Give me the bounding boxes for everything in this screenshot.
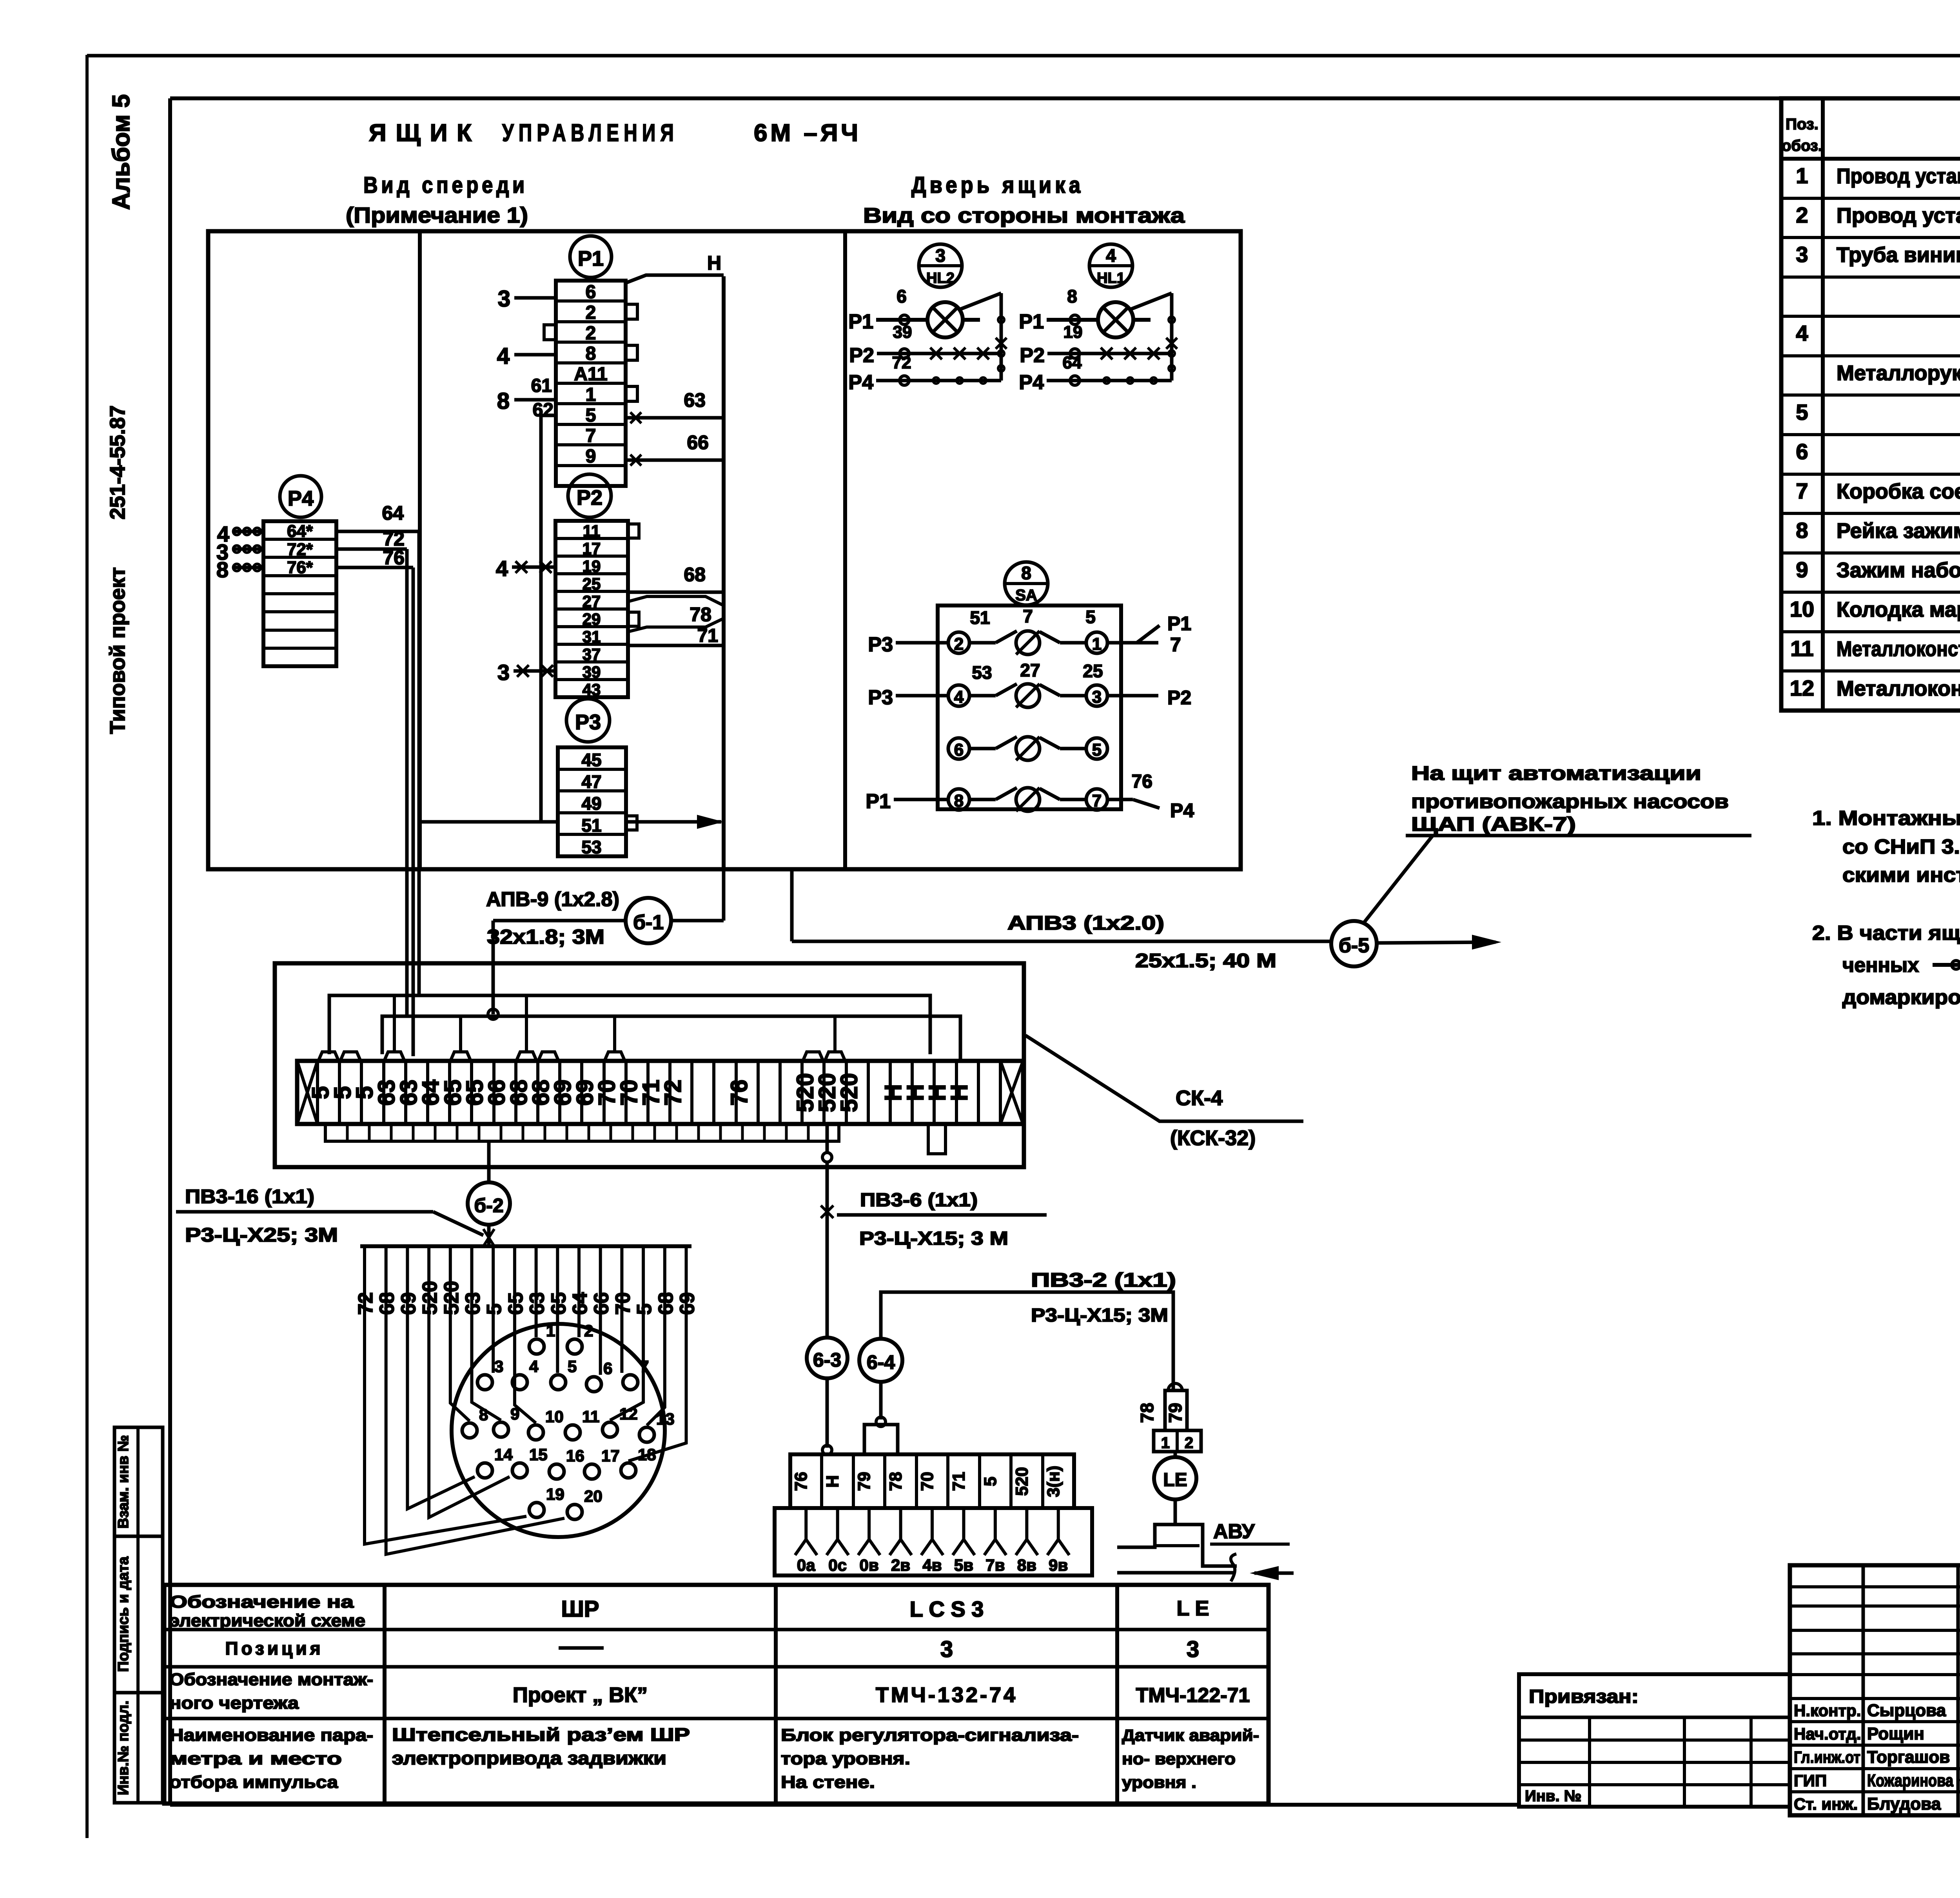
svg-text:43: 43 [583, 680, 601, 699]
svg-text:Поз.: Поз. [1786, 116, 1818, 133]
svg-text:12: 12 [1790, 676, 1814, 700]
svg-text:Альбом 5: Альбом 5 [108, 94, 135, 210]
svg-text:Р4: Р4 [848, 371, 873, 394]
svg-text:68: 68 [684, 564, 706, 586]
sensor LE circle [1154, 1457, 1196, 1499]
SA right wire row1 to Р1 and 7 [1107, 641, 1158, 645]
svg-text:78: 78 [1137, 1403, 1157, 1423]
strip top caps [318, 1052, 339, 1061]
svg-text:Позиция: Позиция [225, 1638, 323, 1659]
LCS3 upper terminal box [790, 1454, 1074, 1508]
svg-text:Н.контр.: Н.контр. [1794, 1701, 1861, 1720]
svg-text:29: 29 [583, 610, 601, 628]
svg-text:АПВ3 (1х2.0): АПВ3 (1х2.0) [1007, 912, 1164, 934]
SA contact row 2 [948, 685, 969, 706]
svg-text:Р4: Р4 [1170, 799, 1194, 821]
svg-text:7: 7 [640, 1357, 649, 1376]
svg-text:ченных: ченных [1842, 954, 1919, 977]
svg-text:61: 61 [531, 375, 552, 396]
wire 72 from P4 [336, 547, 407, 551]
wire Б-2 to fan bar [487, 1225, 491, 1246]
svg-text:76: 76 [383, 547, 405, 569]
wire 71 from P2 [628, 644, 724, 647]
fork terminal 7в [994, 1508, 997, 1539]
fork terminal 4в [931, 1508, 934, 1539]
wire Б-5 arrow right [1377, 942, 1495, 943]
svg-text:ПВ3-16 (1х1): ПВ3-16 (1х1) [185, 1186, 314, 1207]
svg-text:520: 520 [836, 1073, 862, 1112]
svg-text:ного чертежа: ного чертежа [169, 1693, 299, 1713]
svg-text:8: 8 [497, 388, 510, 414]
svg-text:7: 7 [1796, 479, 1808, 503]
svg-text:На щит автоматизации: На щит автоматизации [1411, 762, 1701, 784]
svg-text:76*: 76* [287, 558, 313, 577]
note 2 inline symbol dots [1933, 963, 1960, 967]
svg-text:9: 9 [1796, 557, 1808, 582]
svg-text:0в: 0в [860, 1556, 879, 1574]
LCS3 lower box with forks [775, 1508, 1092, 1575]
svg-text:10: 10 [545, 1407, 564, 1426]
svg-text:64: 64 [382, 502, 404, 524]
svg-text:Н: Н [823, 1475, 842, 1488]
wire 6-4 up and over to LE [881, 1292, 1173, 1389]
svg-text:Ст. инж.: Ст. инж. [1794, 1795, 1858, 1813]
svg-text:12: 12 [619, 1405, 638, 1423]
svg-text:13: 13 [656, 1410, 675, 1428]
svg-text:76: 76 [726, 1080, 752, 1106]
svg-text:17: 17 [583, 539, 601, 558]
wire to LE circle [1174, 1452, 1177, 1457]
svg-text:электрической схеме: электрической схеме [169, 1611, 365, 1630]
svg-text:Вид со стороны монтажа: Вид со стороны монтажа [863, 204, 1185, 227]
node circle on comb [488, 1009, 498, 1019]
svg-text:Датчик аварий-: Датчик аварий- [1122, 1726, 1259, 1744]
control box inner partition [418, 231, 422, 869]
relay P3 designator circle [566, 699, 610, 742]
svg-text:3: 3 [497, 660, 510, 685]
LE terminal box 1 2 [1154, 1430, 1201, 1452]
svg-text:Нач.отд.: Нач.отд. [1794, 1725, 1861, 1743]
svg-text:обоз.: обоз. [1782, 137, 1822, 154]
svg-text:11: 11 [582, 1407, 599, 1426]
fork terminal 8в [1025, 1508, 1028, 1539]
drawing frame bottom line [170, 1803, 1519, 1807]
strip hook row below [325, 1124, 839, 1141]
svg-text:4: 4 [1796, 321, 1808, 346]
svg-text:6: 6 [954, 740, 964, 760]
svg-text:72: 72 [660, 1080, 686, 1106]
svg-text:Рейка зажимов Р3-8: Рейка зажимов Р3-8 [1837, 519, 1960, 542]
svg-text:31: 31 [583, 627, 601, 646]
control box partition right panel [843, 231, 847, 869]
svg-text:1: 1 [1092, 634, 1102, 654]
svg-text:Металлоконструкции для креплен: Металлоконструкции для крепления приборо… [1837, 637, 1960, 661]
wire strip to Б-2 [487, 1141, 491, 1183]
svg-text:Р2: Р2 [1020, 344, 1045, 367]
svg-text:3: 3 [935, 245, 946, 266]
svg-text:76: 76 [1132, 771, 1152, 792]
HL2 diagonal to bus [959, 293, 1001, 310]
wire Б-5 diagonal up to ЩАП note [1363, 836, 1433, 923]
svg-text:8: 8 [1067, 286, 1077, 306]
materials table frame [1781, 98, 1960, 711]
strip cell dividers and numbers [338, 1061, 341, 1124]
svg-text:78: 78 [886, 1472, 906, 1491]
wire Н from P1 to bus [626, 275, 724, 283]
wire Б-1 to comb [493, 919, 626, 923]
svg-text:Р1: Р1 [1167, 613, 1191, 634]
svg-text:Гл.инж.от: Гл.инж.от [1794, 1748, 1860, 1766]
svg-text:но- верхнего: но- верхнего [1122, 1749, 1236, 1768]
svg-text:1. Монтажные работы должны: 1. Монтажные работы должны быть выполнен… [1812, 807, 1960, 830]
svg-text:УПРАВЛЕНИЯ: УПРАВЛЕНИЯ [502, 120, 679, 147]
svg-text:L E: L E [1176, 1597, 1209, 1620]
fork terminal 0с [836, 1508, 839, 1539]
connector ШР circle [452, 1324, 665, 1537]
sheet outer border left [85, 55, 89, 1838]
svg-text:со СНиП 3.05.07-85, нормалями: со СНиП 3.05.07-85, нормалями „Главмонта… [1842, 836, 1960, 858]
svg-text:б-2: б-2 [474, 1195, 503, 1216]
relay P3 right tab [626, 816, 637, 830]
svg-text:4: 4 [496, 556, 508, 581]
svg-text:76: 76 [791, 1472, 811, 1491]
svg-text:11: 11 [583, 522, 600, 540]
marker circle Б-5 [1331, 921, 1377, 966]
wire 6-4 down to riser [879, 1382, 883, 1419]
svg-text:1: 1 [1161, 1434, 1170, 1452]
svg-text:Взам. инв №: Взам. инв № [115, 1435, 132, 1529]
svg-text:71: 71 [697, 625, 718, 646]
wire 78 from P2 (loop) [628, 596, 724, 605]
svg-text:7в: 7в [985, 1556, 1005, 1574]
wire from bus down-left to Б-1 [722, 869, 726, 921]
svg-text:Подпись и дата: Подпись и дата [115, 1556, 132, 1672]
strip right hatch [1000, 1061, 1023, 1124]
svg-text:62: 62 [533, 400, 554, 421]
svg-text:10: 10 [1790, 597, 1814, 622]
svg-text:72*: 72* [287, 540, 313, 559]
svg-text:ПВ3-2 (1х1): ПВ3-2 (1х1) [1031, 1269, 1176, 1291]
svg-text:Зажим наборный ЗН-Н: Зажим наборный ЗН-Н [1837, 558, 1960, 582]
svg-text:На стене.: На стене. [781, 1773, 875, 1792]
svg-text:19: 19 [583, 557, 601, 575]
fork terminal 5в [962, 1508, 965, 1539]
svg-text:Блок регулятора-сигнализа-: Блок регулятора-сигнализа- [781, 1726, 1079, 1745]
HL2 right bus vertical [1000, 293, 1003, 381]
drawing frame top line [170, 96, 1960, 100]
svg-text:72: 72 [892, 353, 911, 372]
relay P1 terminal block [556, 281, 626, 486]
floor arrow [1254, 1572, 1294, 1575]
svg-text:Коробка соединительная КСК-32: Коробка соединительная КСК-32 [1837, 480, 1960, 503]
relay P1 right tabs [626, 304, 637, 319]
wire 63 from P1 [627, 416, 724, 420]
riser above LE box [1165, 1390, 1187, 1430]
wire vertical right of P1-P3 (net to Б-1) [722, 276, 726, 869]
svg-text:2. В части ящика управлен: 2. В части ящика управления выполнить мо… [1812, 922, 1960, 944]
svg-text:4: 4 [529, 1357, 539, 1376]
svg-text:78: 78 [690, 604, 711, 625]
svg-text:79: 79 [855, 1472, 874, 1491]
svg-text:Р3: Р3 [575, 711, 601, 734]
svg-text:Рощин: Рощин [1867, 1724, 1924, 1744]
strip small block below 520 cells [928, 1124, 946, 1154]
svg-text:СК-4: СК-4 [1176, 1086, 1223, 1110]
svg-text:ЯЩИК: ЯЩИК [369, 120, 481, 147]
svg-text:3(н): 3(н) [1044, 1466, 1063, 1497]
svg-text:ЩАП (АВК-7): ЩАП (АВК-7) [1411, 813, 1576, 835]
svg-text:5: 5 [1092, 740, 1102, 760]
svg-text:Обозначение монтаж-: Обозначение монтаж- [169, 1670, 373, 1689]
relay P4 designator circle [280, 476, 321, 517]
svg-text:2: 2 [1796, 203, 1808, 227]
label rule [176, 1210, 433, 1214]
svg-text:Р1: Р1 [848, 310, 873, 333]
relay P1 designator circle [570, 236, 612, 277]
svg-text:HL1: HL1 [1097, 270, 1125, 286]
svg-text:64*: 64* [287, 522, 313, 541]
sheet outer border top [87, 54, 1960, 58]
svg-text:2в: 2в [891, 1556, 910, 1574]
svg-text:(КСК-32): (КСК-32) [1170, 1126, 1256, 1150]
wire 6-3 down to LCS3 box [826, 1378, 829, 1448]
marker circle 6-3 [807, 1338, 848, 1378]
svg-text:Дверь ящика: Дверь ящика [911, 172, 1084, 198]
marker circle Б-1 [626, 898, 671, 943]
svg-text:0с: 0с [828, 1556, 847, 1574]
svg-text:16: 16 [566, 1447, 584, 1465]
relay P3 terminal block [558, 747, 626, 856]
svg-text:70: 70 [918, 1472, 937, 1491]
HL1 right bus vertical [1170, 293, 1174, 381]
svg-text:2: 2 [586, 323, 596, 344]
svg-text:Торгашов: Торгашов [1867, 1748, 1950, 1767]
lamp HL2 position circle 3 [919, 244, 962, 287]
svg-text:Наименование пара-: Наименование пара- [169, 1726, 373, 1745]
svg-text:37: 37 [583, 645, 601, 663]
svg-text:Инв.№ подл.: Инв.№ подл. [115, 1700, 132, 1795]
riser box on cell 78 [864, 1425, 898, 1454]
svg-text:6-3: 6-3 [813, 1349, 841, 1371]
relay P4 terminal block [263, 521, 336, 666]
svg-text:Провод установочный ПВ3-1-380: Провод установочный ПВ3-1-380 ГОСТ6323-7… [1837, 164, 1960, 188]
svg-text:3: 3 [498, 286, 510, 312]
marker circle 6-4 [859, 1339, 902, 1382]
svg-text:2: 2 [586, 302, 596, 323]
SA contact row 4 [948, 789, 969, 810]
lamp HL1 symbol [1098, 302, 1133, 337]
svg-text:HL2: HL2 [926, 270, 955, 286]
svg-text:66: 66 [687, 431, 709, 453]
svg-text:6-4: 6-4 [867, 1351, 895, 1373]
svg-text:б-5: б-5 [1339, 934, 1369, 957]
SA right wire row4 to 76 Р4 [1107, 798, 1133, 801]
strip left hatch [297, 1061, 318, 1124]
svg-text:АПВ-9 (1х2.8): АПВ-9 (1х2.8) [486, 888, 619, 911]
svg-text:Р1: Р1 [578, 247, 604, 270]
relay P2 right tabs [628, 524, 639, 538]
wire left bypass down from P1 [541, 414, 556, 417]
svg-text:1: 1 [586, 384, 596, 405]
svg-text:3: 3 [1092, 687, 1102, 707]
svg-text:5: 5 [1085, 607, 1096, 627]
comb wire upper [329, 995, 930, 1054]
svg-text:Привязан:: Привязан: [1529, 1686, 1639, 1707]
svg-text:Кожаринова: Кожаринова [1867, 1771, 1953, 1790]
svg-text:Р2: Р2 [849, 344, 874, 367]
control box outline [208, 231, 1241, 869]
svg-text:5: 5 [568, 1357, 577, 1376]
svg-text:Р2: Р2 [1167, 687, 1191, 709]
svg-text:6: 6 [603, 1359, 612, 1378]
svg-text:63: 63 [684, 389, 706, 411]
svg-text:8: 8 [586, 343, 596, 364]
svg-text:Блудова: Блудова [1867, 1794, 1941, 1813]
svg-text:47: 47 [581, 772, 601, 792]
svg-text:20: 20 [584, 1487, 603, 1505]
svg-text:39: 39 [893, 323, 912, 342]
svg-text:11: 11 [1790, 636, 1813, 661]
svg-text:15: 15 [529, 1445, 548, 1464]
svg-text:ГИП: ГИП [1794, 1771, 1827, 1790]
relay P2 terminal block [555, 521, 628, 697]
svg-text:7: 7 [1092, 791, 1102, 810]
relay P1 left tab [544, 325, 556, 340]
svg-text:9: 9 [586, 446, 596, 467]
svg-text:7: 7 [586, 426, 596, 446]
svg-text:251-4-55.87: 251-4-55.87 [106, 405, 129, 519]
svg-text:79: 79 [1165, 1403, 1185, 1423]
svg-text:7: 7 [1023, 606, 1033, 626]
signal table frame [164, 1585, 1269, 1804]
svg-text:25: 25 [583, 575, 601, 593]
svg-text:ПВ3-6 (1х1): ПВ3-6 (1х1) [860, 1190, 978, 1211]
svg-text:3: 3 [1187, 1637, 1199, 1662]
svg-text:8: 8 [216, 557, 229, 582]
svg-text:4: 4 [1106, 245, 1116, 266]
svg-text:53: 53 [581, 837, 601, 857]
svg-text:2: 2 [584, 1322, 593, 1340]
svg-text:Р3-Ц-Х15; 3М: Р3-Ц-Х15; 3М [1031, 1305, 1168, 1326]
svg-text:3: 3 [1796, 242, 1808, 266]
privyazan box [1519, 1674, 1790, 1807]
svg-text:520: 520 [1012, 1467, 1031, 1496]
svg-text:L C S 3: L C S 3 [910, 1597, 984, 1621]
svg-text:25х1.5; 40 М: 25х1.5; 40 М [1135, 950, 1276, 972]
svg-text:51: 51 [970, 607, 990, 628]
svg-text:19: 19 [1063, 323, 1083, 342]
SA right wire row2 to Р2 [1107, 694, 1158, 698]
comb wire lower [382, 1016, 960, 1061]
svg-text:25: 25 [1083, 661, 1103, 681]
svg-text:64: 64 [1063, 353, 1082, 372]
svg-text:8в: 8в [1017, 1556, 1036, 1574]
svg-text:Металлоконструкции для креплен: Металлоконструкции для крепления трасс [1837, 677, 1960, 700]
svg-text:ШР: ШР [561, 1596, 599, 1622]
svg-text:Типовой проект: Типовой проект [106, 567, 129, 734]
svg-text:27: 27 [1020, 660, 1040, 680]
svg-text:АВУ: АВУ [1213, 1520, 1255, 1543]
svg-text:45: 45 [581, 750, 601, 770]
signature table frame [1790, 1565, 1960, 1815]
floor line with break [1117, 1571, 1234, 1575]
svg-text:8: 8 [954, 791, 964, 810]
svg-text:Обозначение на: Обозначение на [169, 1592, 354, 1612]
svg-text:Труба винипластовая ТУ 619.051: Труба винипластовая ТУ 619.051.249-79 [1837, 243, 1960, 266]
svg-text:71: 71 [949, 1472, 968, 1491]
svg-text:5: 5 [586, 405, 596, 426]
svg-text:тора уровня.: тора уровня. [781, 1749, 910, 1768]
svg-text:18: 18 [638, 1445, 656, 1464]
svg-text:скими инструкциями по монта: скими инструкциями по монтажу и эксплуат… [1842, 864, 1960, 886]
svg-text:Сырцова: Сырцова [1867, 1701, 1946, 1720]
wire LE down [1174, 1499, 1177, 1524]
lamp HL2 symbol [927, 302, 963, 337]
svg-text:6: 6 [586, 282, 596, 303]
svg-text:51: 51 [581, 815, 601, 836]
svg-text:6: 6 [1796, 439, 1808, 464]
svg-text:Штепсельный раз’ем ШР: Штепсельный раз’ем ШР [392, 1724, 690, 1745]
svg-text:А11: А11 [574, 364, 607, 385]
fork terminal 0в [867, 1508, 871, 1539]
wire strip to 6-3 [826, 1124, 829, 1154]
svg-text:Н: Н [707, 252, 721, 274]
svg-text:LE: LE [1163, 1470, 1187, 1490]
svg-text:Колодка маркировочная КМ-4: Колодка маркировочная КМ-4 [1837, 598, 1960, 622]
drawing frame left line [168, 98, 172, 1805]
svg-text:9: 9 [510, 1405, 519, 1423]
svg-text:4: 4 [954, 687, 964, 707]
svg-text:19: 19 [546, 1485, 564, 1503]
svg-text:Провод установочный АПВ-2,0-3: Провод установочный АПВ-2,0-380 [1837, 204, 1960, 227]
svg-text:Н: Н [946, 1084, 973, 1101]
svg-text:27: 27 [583, 592, 601, 611]
LE mounting bracket [1117, 1525, 1237, 1566]
fork terminal 0а [804, 1508, 808, 1539]
svg-text:SA: SA [1015, 587, 1037, 604]
label rule ПВ3-6 [837, 1213, 1047, 1217]
svg-text:14: 14 [494, 1445, 513, 1464]
svg-text:Р3-Ц-Х25; 3М: Р3-Ц-Х25; 3М [185, 1224, 338, 1246]
label СК-4 leader [1025, 1035, 1303, 1121]
svg-text:2: 2 [954, 634, 964, 654]
svg-text:противопожарных насосов: противопожарных насосов [1411, 790, 1729, 812]
svg-text:0а: 0а [797, 1556, 815, 1574]
wire bundle P4 down to terminal strip [417, 531, 421, 995]
svg-text:6М –ЯЧ: 6М –ЯЧ [754, 120, 861, 147]
switch SA box [938, 605, 1121, 809]
svg-text:7: 7 [1170, 634, 1181, 656]
svg-text:Р3: Р3 [868, 686, 893, 709]
svg-text:Р2: Р2 [577, 486, 603, 509]
svg-text:5: 5 [1796, 400, 1808, 424]
svg-text:6: 6 [897, 286, 907, 306]
svg-text:4: 4 [497, 343, 510, 369]
wire 64 from P4 [336, 530, 419, 533]
svg-text:Вид спереди: Вид спереди [363, 172, 528, 198]
svg-text:8: 8 [1796, 518, 1808, 542]
svg-text:Р4: Р4 [1019, 371, 1044, 394]
svg-text:домаркировать клеммы, обозна: домаркировать клеммы, обозначенные *. [1842, 986, 1960, 1009]
fork terminal 9в [1057, 1508, 1060, 1539]
svg-text:8: 8 [479, 1405, 488, 1424]
svg-text:1: 1 [546, 1322, 555, 1340]
svg-text:Р4: Р4 [288, 487, 314, 510]
svg-text:ТМЧ-132-74: ТМЧ-132-74 [876, 1683, 1018, 1707]
svg-text:9в: 9в [1049, 1556, 1068, 1574]
svg-text:2: 2 [1185, 1434, 1193, 1452]
svg-text:Р1: Р1 [866, 790, 891, 813]
